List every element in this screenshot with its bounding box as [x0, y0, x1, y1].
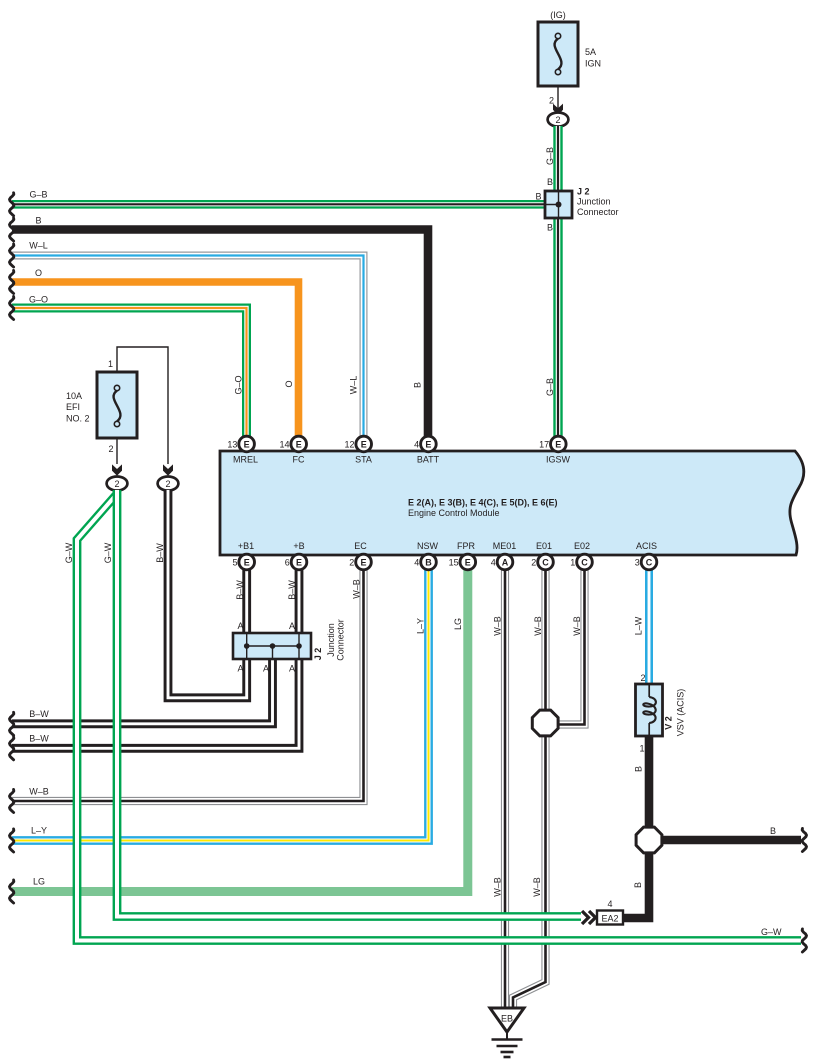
receptacle oval 2 (IGN) [548, 113, 569, 127]
svg-text:5: 5 [232, 557, 237, 567]
svg-text:C: C [581, 557, 588, 567]
arrow into receptacle 2 (right, B-W) [163, 464, 173, 475]
wire B from octagon node right to break [661, 836, 802, 845]
svg-text:G–O: G–O [29, 295, 48, 305]
svg-text:J 2: J 2 [313, 648, 323, 661]
svg-text:2: 2 [165, 479, 170, 489]
svg-text:5A: 5A [585, 47, 596, 57]
wire W-B from E01 pin down through octagon node and to ground [513, 562, 546, 1008]
break symbol W-B left [10, 790, 14, 813]
wire LG from FPR pin down and out left [12, 562, 468, 892]
svg-text:W–B: W–B [29, 787, 49, 797]
svg-text:G–W: G–W [64, 542, 74, 563]
svg-text:4: 4 [607, 899, 612, 909]
svg-text:EC: EC [354, 541, 367, 551]
svg-text:E: E [361, 439, 367, 449]
pin 6 E +B [291, 554, 307, 570]
svg-text:A: A [237, 664, 243, 674]
wire from fuse IGN pin 2 down to receptacle 2 [557, 86, 559, 112]
pin 17 E IGSW [551, 436, 567, 452]
ECM pin names top row [233, 455, 571, 465]
wire G-W right branch: receptacle to EA2 [117, 490, 581, 917]
pin 5 E +B1 [239, 554, 255, 570]
svg-text:E: E [360, 557, 366, 567]
svg-text:B: B [413, 382, 423, 388]
svg-text:NO. 2: NO. 2 [66, 414, 90, 424]
svg-text:L–Y: L–Y [31, 826, 47, 836]
svg-text:BATT: BATT [417, 455, 440, 465]
svg-text:IGSW: IGSW [546, 455, 571, 465]
svg-text:ACIS: ACIS [636, 541, 657, 551]
svg-text:W–L: W–L [29, 241, 48, 251]
V2 solenoid coil symbol [643, 684, 656, 736]
svg-text:2: 2 [108, 444, 113, 454]
wire W-B from E02 pin down and left into octagon node [557, 562, 585, 725]
svg-text:LG: LG [453, 618, 463, 630]
svg-text:E: E [555, 439, 561, 449]
svg-text:(IG): (IG) [550, 10, 566, 20]
svg-text:B–W: B–W [29, 709, 49, 719]
pin 14 E FC [291, 436, 307, 452]
svg-text:B: B [535, 192, 541, 202]
junction connector J2 (top) box [545, 191, 572, 218]
svg-text:B: B [35, 216, 41, 226]
wire B-W from J2 lower right, down and out left [12, 658, 299, 748]
svg-text:B–W: B–W [29, 734, 49, 744]
fuse 5A IGN element symbol [555, 33, 562, 74]
svg-text:W–B: W–B [352, 579, 362, 599]
svg-text:EFI: EFI [66, 402, 80, 412]
svg-text:+B1: +B1 [238, 541, 254, 551]
pin 13 E MREL [239, 436, 255, 452]
receptacle oval 2 (right) [158, 477, 179, 491]
svg-text:B: B [633, 882, 643, 888]
svg-text:A: A [263, 664, 269, 674]
fuse 10A EFI NO.2 box [97, 372, 137, 438]
pin 15 E FPR [460, 554, 476, 570]
svg-text:FC: FC [293, 455, 305, 465]
svg-text:L–W: L–W [634, 616, 644, 635]
svg-text:LG: LG [33, 877, 45, 887]
pin numbers top [227, 439, 549, 449]
svg-text:W–B: W–B [572, 616, 582, 636]
svg-text:W–B: W–B [533, 616, 543, 636]
svg-text:ME01: ME01 [493, 541, 517, 551]
svg-text:W–B: W–B [532, 877, 542, 897]
svg-text:G–W: G–W [103, 542, 113, 563]
svg-text:O: O [284, 380, 294, 387]
wire from fuse EFI pin 2 down [116, 438, 118, 464]
svg-text:4: 4 [491, 557, 496, 567]
svg-text:L–Y: L–Y [416, 618, 426, 634]
svg-text:FPR: FPR [457, 541, 476, 551]
break symbol G-O left [10, 297, 14, 320]
svg-text:E: E [244, 439, 250, 449]
svg-text:B–W: B–W [235, 580, 245, 600]
svg-text:2: 2 [531, 557, 536, 567]
fuse 5A IGN box [538, 22, 578, 86]
svg-text:C: C [646, 557, 653, 567]
rotated wire labels [64, 147, 686, 897]
svg-text:17: 17 [539, 439, 549, 449]
wire 1 from fuse EFI pin1 over to receptacle (B-W branch) [117, 347, 168, 464]
svg-text:G–W: G–W [761, 927, 782, 937]
svg-text:V 2: V 2 [664, 716, 674, 730]
pin numbers bottom [232, 557, 639, 567]
break symbol W-L left [10, 244, 14, 267]
wire B from left break to BATT pin [12, 230, 428, 441]
svg-text:B: B [770, 826, 776, 836]
svg-text:2: 2 [114, 479, 119, 489]
wire B from VSV pin1 down to octagon node [645, 734, 654, 830]
octagon splice node (W-B wires) [532, 710, 558, 736]
svg-text:W–B: W–B [493, 877, 503, 897]
svg-text:J 2: J 2 [577, 187, 590, 197]
svg-text:Connector: Connector [577, 207, 619, 217]
svg-text:C: C [542, 557, 549, 567]
octagon node (B wire) [636, 827, 662, 853]
pin 4 E BATT [421, 436, 437, 452]
svg-text:G–B: G–B [29, 190, 47, 200]
Engine Control Module box E2(A)-E6(E) [220, 451, 804, 555]
svg-text:+B: +B [293, 541, 304, 551]
break symbol LG left [10, 880, 14, 903]
break symbol L-Y left [10, 829, 14, 852]
svg-text:E01: E01 [536, 541, 552, 551]
wire O from left break to FC pin [12, 282, 299, 440]
wire W-B from ME01 pin down to ground EB [501, 562, 509, 1008]
wire G-B horizontal from left break to junction connector J2 [12, 200, 547, 209]
svg-text:VSV (ACIS): VSV (ACIS) [676, 689, 686, 737]
receptacle oval 2 (left) [107, 477, 128, 491]
ground EB triangle [490, 1008, 524, 1032]
break symbol G-W right [802, 929, 806, 952]
ground symbol bars [492, 1032, 523, 1057]
svg-text:12: 12 [344, 439, 354, 449]
svg-text:EB: EB [501, 1014, 513, 1024]
svg-text:Connector: Connector [336, 619, 346, 661]
pin 2 C E01 [538, 554, 554, 570]
wire B-W from J2 lower middle, down and out left [12, 658, 273, 724]
svg-text:6: 6 [285, 557, 290, 567]
EA2 connector box [597, 911, 623, 925]
break symbol B right [802, 829, 806, 852]
svg-text:Engine Control Module: Engine Control Module [408, 508, 500, 518]
svg-text:2: 2 [549, 96, 554, 106]
svg-text:4: 4 [414, 439, 419, 449]
svg-text:2: 2 [349, 557, 354, 567]
svg-text:14: 14 [279, 439, 289, 449]
svg-text:Junction: Junction [326, 623, 336, 657]
svg-text:B: B [634, 766, 644, 772]
wire W-L from left break to STA pin [12, 256, 364, 441]
left wire name labels [29, 190, 49, 887]
break symbol B left [10, 218, 14, 241]
svg-text:1: 1 [639, 744, 644, 754]
svg-text:1: 1 [108, 359, 113, 369]
arrow into receptacle 2 (left, G-W) [112, 464, 122, 475]
svg-text:W–L: W–L [349, 376, 359, 395]
svg-text:E: E [296, 439, 302, 449]
pin 4 B NSW [421, 554, 437, 570]
break symbol B-W lower left [10, 737, 14, 760]
svg-text:E02: E02 [574, 541, 590, 551]
svg-text:G–O: G–O [234, 375, 244, 394]
wire L-Y from NSW pin down and out left [12, 562, 429, 841]
wire B from octagon node down then left into EA2 [622, 851, 649, 918]
break symbol B-W upper left [10, 712, 14, 735]
svg-text:2: 2 [555, 115, 560, 125]
svg-text:A: A [502, 557, 509, 567]
pin 2 E EC [356, 554, 372, 570]
svg-text:3: 3 [635, 557, 640, 567]
svg-text:4: 4 [414, 557, 419, 567]
svg-text:B: B [425, 557, 432, 567]
svg-text:10A: 10A [66, 391, 82, 401]
EA2 connector chevrons [582, 911, 596, 924]
wire B-W from +B1 pin down to J2 lower [242, 562, 251, 634]
pin 12 E STA [356, 436, 372, 452]
arrow into receptacle 2 (IGN) [553, 104, 563, 116]
svg-text:G–B: G–B [545, 378, 555, 396]
wire W-B from EC pin down and out left [12, 562, 364, 801]
wire G-W left branch: diagonal split, down, out right [77, 495, 801, 941]
J2 lower internal bus and node dots [247, 633, 299, 659]
wire G-B vertical from oval down through J2 to IGSW pin [553, 126, 562, 440]
wire L-W from ACIS pin down to VSV [645, 562, 653, 688]
svg-text:E 2(A), E 3(B), E 4(C), E 5(D): E 2(A), E 3(B), E 4(C), E 5(D), E 6(E) [408, 498, 558, 508]
svg-text:NSW: NSW [417, 541, 439, 551]
svg-text:A: A [289, 621, 295, 631]
svg-text:O: O [35, 268, 42, 278]
svg-text:Junction: Junction [577, 197, 611, 207]
wire B-W staple from right receptacle down and into J2 lower bottom [168, 490, 247, 698]
wire G-O from left break to MREL pin [12, 308, 247, 440]
J2 internal wires and node dot [545, 191, 559, 218]
svg-text:A: A [237, 621, 243, 631]
pin 1 C E02 [577, 554, 593, 570]
svg-text:STA: STA [355, 455, 372, 465]
svg-text:B: B [547, 177, 553, 187]
VSV (ACIS) V2 box [636, 684, 663, 736]
svg-text:IGN: IGN [585, 59, 601, 69]
ECM pin names bottom row [238, 541, 657, 551]
svg-text:1: 1 [570, 557, 575, 567]
svg-text:B–W: B–W [287, 580, 297, 600]
junction connector J2 (lower) box [233, 633, 311, 659]
fuse EFI element symbol [114, 385, 121, 426]
svg-text:E: E [425, 439, 431, 449]
pin 3 C ACIS [641, 554, 657, 570]
break symbol G-B left [10, 193, 14, 216]
break symbol O left [10, 271, 14, 294]
wire B-W from +B pin down to J2 lower [295, 562, 304, 634]
svg-text:EA2: EA2 [601, 913, 618, 923]
svg-text:2: 2 [640, 673, 645, 683]
svg-text:A: A [289, 664, 295, 674]
svg-text:E: E [465, 557, 471, 567]
svg-text:15: 15 [449, 557, 459, 567]
svg-text:B: B [547, 223, 553, 233]
svg-text:G–B: G–B [545, 147, 555, 165]
pin 4 A ME01 [497, 554, 513, 570]
svg-text:B–W: B–W [155, 543, 165, 563]
svg-text:W–B: W–B [493, 616, 503, 636]
svg-text:E: E [296, 557, 302, 567]
svg-text:MREL: MREL [233, 455, 258, 465]
svg-text:13: 13 [227, 439, 237, 449]
svg-text:E: E [244, 557, 250, 567]
